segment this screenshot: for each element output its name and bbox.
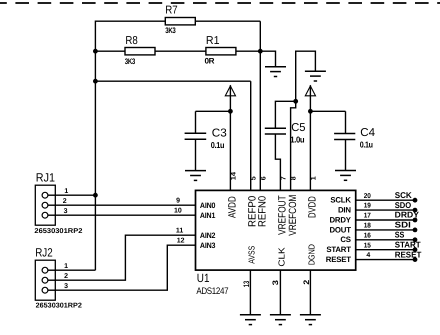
wire RJ1 pin2 to U1 AIN0 [55, 204, 195, 206]
wire R8-R1 middle segment [155, 50, 206, 52]
svg-text:5: 5 [250, 176, 257, 180]
junction DVDD node [308, 109, 313, 114]
svg-text:0.1u: 0.1u [211, 140, 224, 150]
wire DGND pin 2 down to ground [309, 270, 311, 315]
connector RJ2 [35, 260, 55, 300]
sheet border (dashed top edge) [0, 2, 440, 4]
svg-text:20: 20 [364, 193, 371, 200]
svg-text:R7: R7 [165, 5, 177, 17]
svg-text:6: 6 [260, 176, 267, 180]
ground G4 (C4) [335, 171, 356, 181]
svg-text:U1: U1 [197, 271, 210, 285]
svg-text:3K3: 3K3 [125, 57, 136, 66]
svg-text:SCK: SCK [395, 190, 412, 200]
svg-text:C4: C4 [360, 127, 375, 139]
svg-text:DVDD: DVDD [307, 196, 319, 218]
svg-text:14: 14 [230, 172, 237, 181]
svg-text:AIN1: AIN1 [200, 211, 216, 220]
svg-text:SCLK: SCLK [330, 196, 351, 205]
svg-text:0.1u: 0.1u [360, 139, 373, 149]
svg-text:SDO: SDO [395, 200, 412, 210]
wire RJ1 pin3 to U1 AIN1 [55, 214, 195, 216]
capacitor C4 [334, 134, 355, 140]
wire U1 pin 14 AVDD up to junction [229, 111, 231, 190]
power arrow AVDD [225, 85, 235, 111]
wire U1 to port DRDY [356, 219, 415, 221]
port dot DRDY [413, 218, 418, 223]
wire U1 to port START [356, 249, 415, 251]
wire AVDD junction to C3 [196, 110, 231, 112]
wire RJ2 pin3 to U1 AIN3 [55, 245, 195, 290]
svg-text:3K3: 3K3 [165, 26, 176, 35]
wire VREFCOM junction to C5 top [275, 101, 295, 128]
wire R1 right lead to node REFN0 [236, 50, 261, 52]
svg-text:AIN3: AIN3 [200, 241, 216, 250]
port dot START [413, 247, 418, 252]
power arrow DVDD [305, 85, 315, 111]
svg-text:0R: 0R [205, 57, 215, 66]
wire RJ1 pin1 to left net [55, 194, 95, 196]
svg-text:3: 3 [64, 208, 68, 215]
wire left vertical net x=95 (R7/R8/REFP0/RJ1.1/RJ2.1) [94, 21, 96, 271]
wire U1 pin 8 VREFCOM up and over to ground [291, 51, 316, 190]
capacitor C3 [185, 133, 207, 139]
wire C4 bottom lead to ground [345, 140, 347, 171]
svg-text:AVSS: AVSS [247, 246, 257, 264]
svg-text:DRDY: DRDY [330, 215, 352, 224]
svg-text:1: 1 [64, 188, 68, 195]
resistor R7 [165, 18, 195, 25]
junction VREFCOM node / C5 branch [293, 99, 298, 104]
svg-text:RESET: RESET [395, 249, 423, 259]
svg-text:ADS1247: ADS1247 [196, 286, 228, 297]
svg-text:17: 17 [364, 213, 371, 220]
wire U1 to port SDI [356, 229, 415, 231]
svg-text:RJ2: RJ2 [35, 246, 53, 260]
svg-text:CS: CS [340, 235, 350, 244]
svg-text:START: START [326, 245, 351, 254]
svg-text:26530301RP2: 26530301RP2 [36, 302, 82, 309]
wire U1 to port SDO [356, 209, 415, 211]
svg-text:2: 2 [64, 273, 68, 280]
svg-text:16: 16 [364, 232, 371, 239]
connector RJ1 [35, 185, 55, 225]
svg-text:START: START [395, 239, 422, 249]
port dot SCK [413, 198, 418, 203]
svg-text:AIN0: AIN0 [200, 201, 216, 210]
svg-text:15: 15 [364, 242, 371, 249]
svg-text:DOUT: DOUT [330, 225, 352, 234]
svg-text:1: 1 [64, 263, 68, 270]
wire U1 to port RESET [356, 259, 415, 261]
wire C4 top lead [345, 111, 347, 133]
wire R8 left lead from left net [95, 50, 125, 52]
svg-text:18: 18 [364, 223, 371, 230]
port dot SDO [413, 208, 418, 213]
svg-text:AIN2: AIN2 [200, 231, 216, 240]
wire RJ2 pin2 to U1 AIN2 [55, 235, 195, 280]
wire R7 right lead to REFN0 vertical [195, 20, 260, 22]
resistor R1 [206, 48, 236, 55]
wire REFP0 horizontal from left net [95, 80, 250, 82]
svg-text:C3: C3 [212, 127, 227, 139]
junction left net / R8 lead [93, 49, 98, 54]
svg-text:DGND: DGND [307, 244, 317, 265]
wire R7 left lead from left net [95, 20, 165, 22]
svg-text:2: 2 [302, 279, 311, 285]
svg-text:R1: R1 [206, 35, 220, 47]
wire RJ2 pin1 to left net vertical [55, 269, 95, 271]
capacitor C5 [265, 128, 286, 134]
svg-text:R8: R8 [125, 35, 137, 47]
op-amp/ADC U1 body [196, 190, 356, 270]
wire C5 bottom to U1 pin 7 VREFOUT [275, 134, 280, 190]
svg-text:1: 1 [310, 176, 317, 180]
svg-text:3: 3 [64, 283, 68, 290]
ground G3 (C3) [185, 171, 206, 181]
svg-text:1.0u: 1.0u [290, 134, 304, 144]
svg-text:3: 3 [271, 279, 280, 285]
ground G1 (REFN0 net) [265, 67, 286, 77]
svg-text:8: 8 [291, 176, 298, 180]
port dot SDI [413, 228, 418, 233]
ground G6 (CLK) [270, 315, 291, 325]
port dot RESET [413, 257, 418, 262]
wire REFP0 vertical to U1 pin 5 [250, 81, 252, 190]
svg-text:11: 11 [176, 228, 184, 235]
wire C3 bottom lead to ground [195, 139, 197, 170]
port dot SS [413, 237, 418, 242]
svg-text:2: 2 [63, 198, 67, 205]
svg-text:10: 10 [174, 208, 182, 215]
wire REFN0 net to ground stub [260, 51, 275, 66]
svg-text:19: 19 [364, 203, 371, 210]
junction left net / RJ1 pin1 [93, 193, 98, 198]
svg-text:REFN0: REFN0 [257, 196, 269, 227]
svg-text:C5: C5 [291, 122, 305, 134]
wire U1 to port SCK [356, 199, 415, 201]
svg-text:AVDD: AVDD [227, 196, 239, 218]
ground G7 (DGND) [300, 315, 321, 325]
wire U1 to port SS [356, 239, 415, 241]
ground G2 (VREFCOM net) [305, 71, 326, 81]
svg-text:DIN: DIN [338, 206, 351, 215]
wire DVDD junction to C4 [310, 110, 345, 112]
svg-text:RJ1: RJ1 [36, 171, 55, 185]
resistor R8 [125, 48, 155, 55]
svg-text:9: 9 [176, 198, 180, 205]
wire AVSS pin 13 down to ground [249, 270, 251, 315]
svg-text:VREFCOM: VREFCOM [287, 195, 299, 236]
junction node R7/R1/REFN0 [258, 49, 263, 54]
svg-text:7: 7 [280, 176, 287, 180]
svg-text:RESET: RESET [326, 255, 351, 264]
svg-text:12: 12 [177, 238, 185, 245]
svg-text:SDI: SDI [395, 220, 411, 230]
svg-text:CLK: CLK [277, 247, 287, 266]
svg-text:4: 4 [366, 252, 370, 259]
svg-text:13: 13 [242, 280, 251, 287]
wire C3 top lead [195, 111, 197, 133]
svg-text:SS: SS [395, 229, 405, 239]
junction AVDD node [228, 109, 233, 114]
wire REFN0 vertical to U1 pin 6 [259, 21, 261, 190]
junction left net / REFP0 wire [93, 79, 98, 84]
ground G5 (AVSS) [240, 315, 261, 325]
wire U1 pin 1 DVDD up to junction [309, 111, 311, 190]
wire CLK pin 3 down to ground [279, 270, 281, 315]
svg-text:26530301RP2: 26530301RP2 [34, 228, 82, 235]
